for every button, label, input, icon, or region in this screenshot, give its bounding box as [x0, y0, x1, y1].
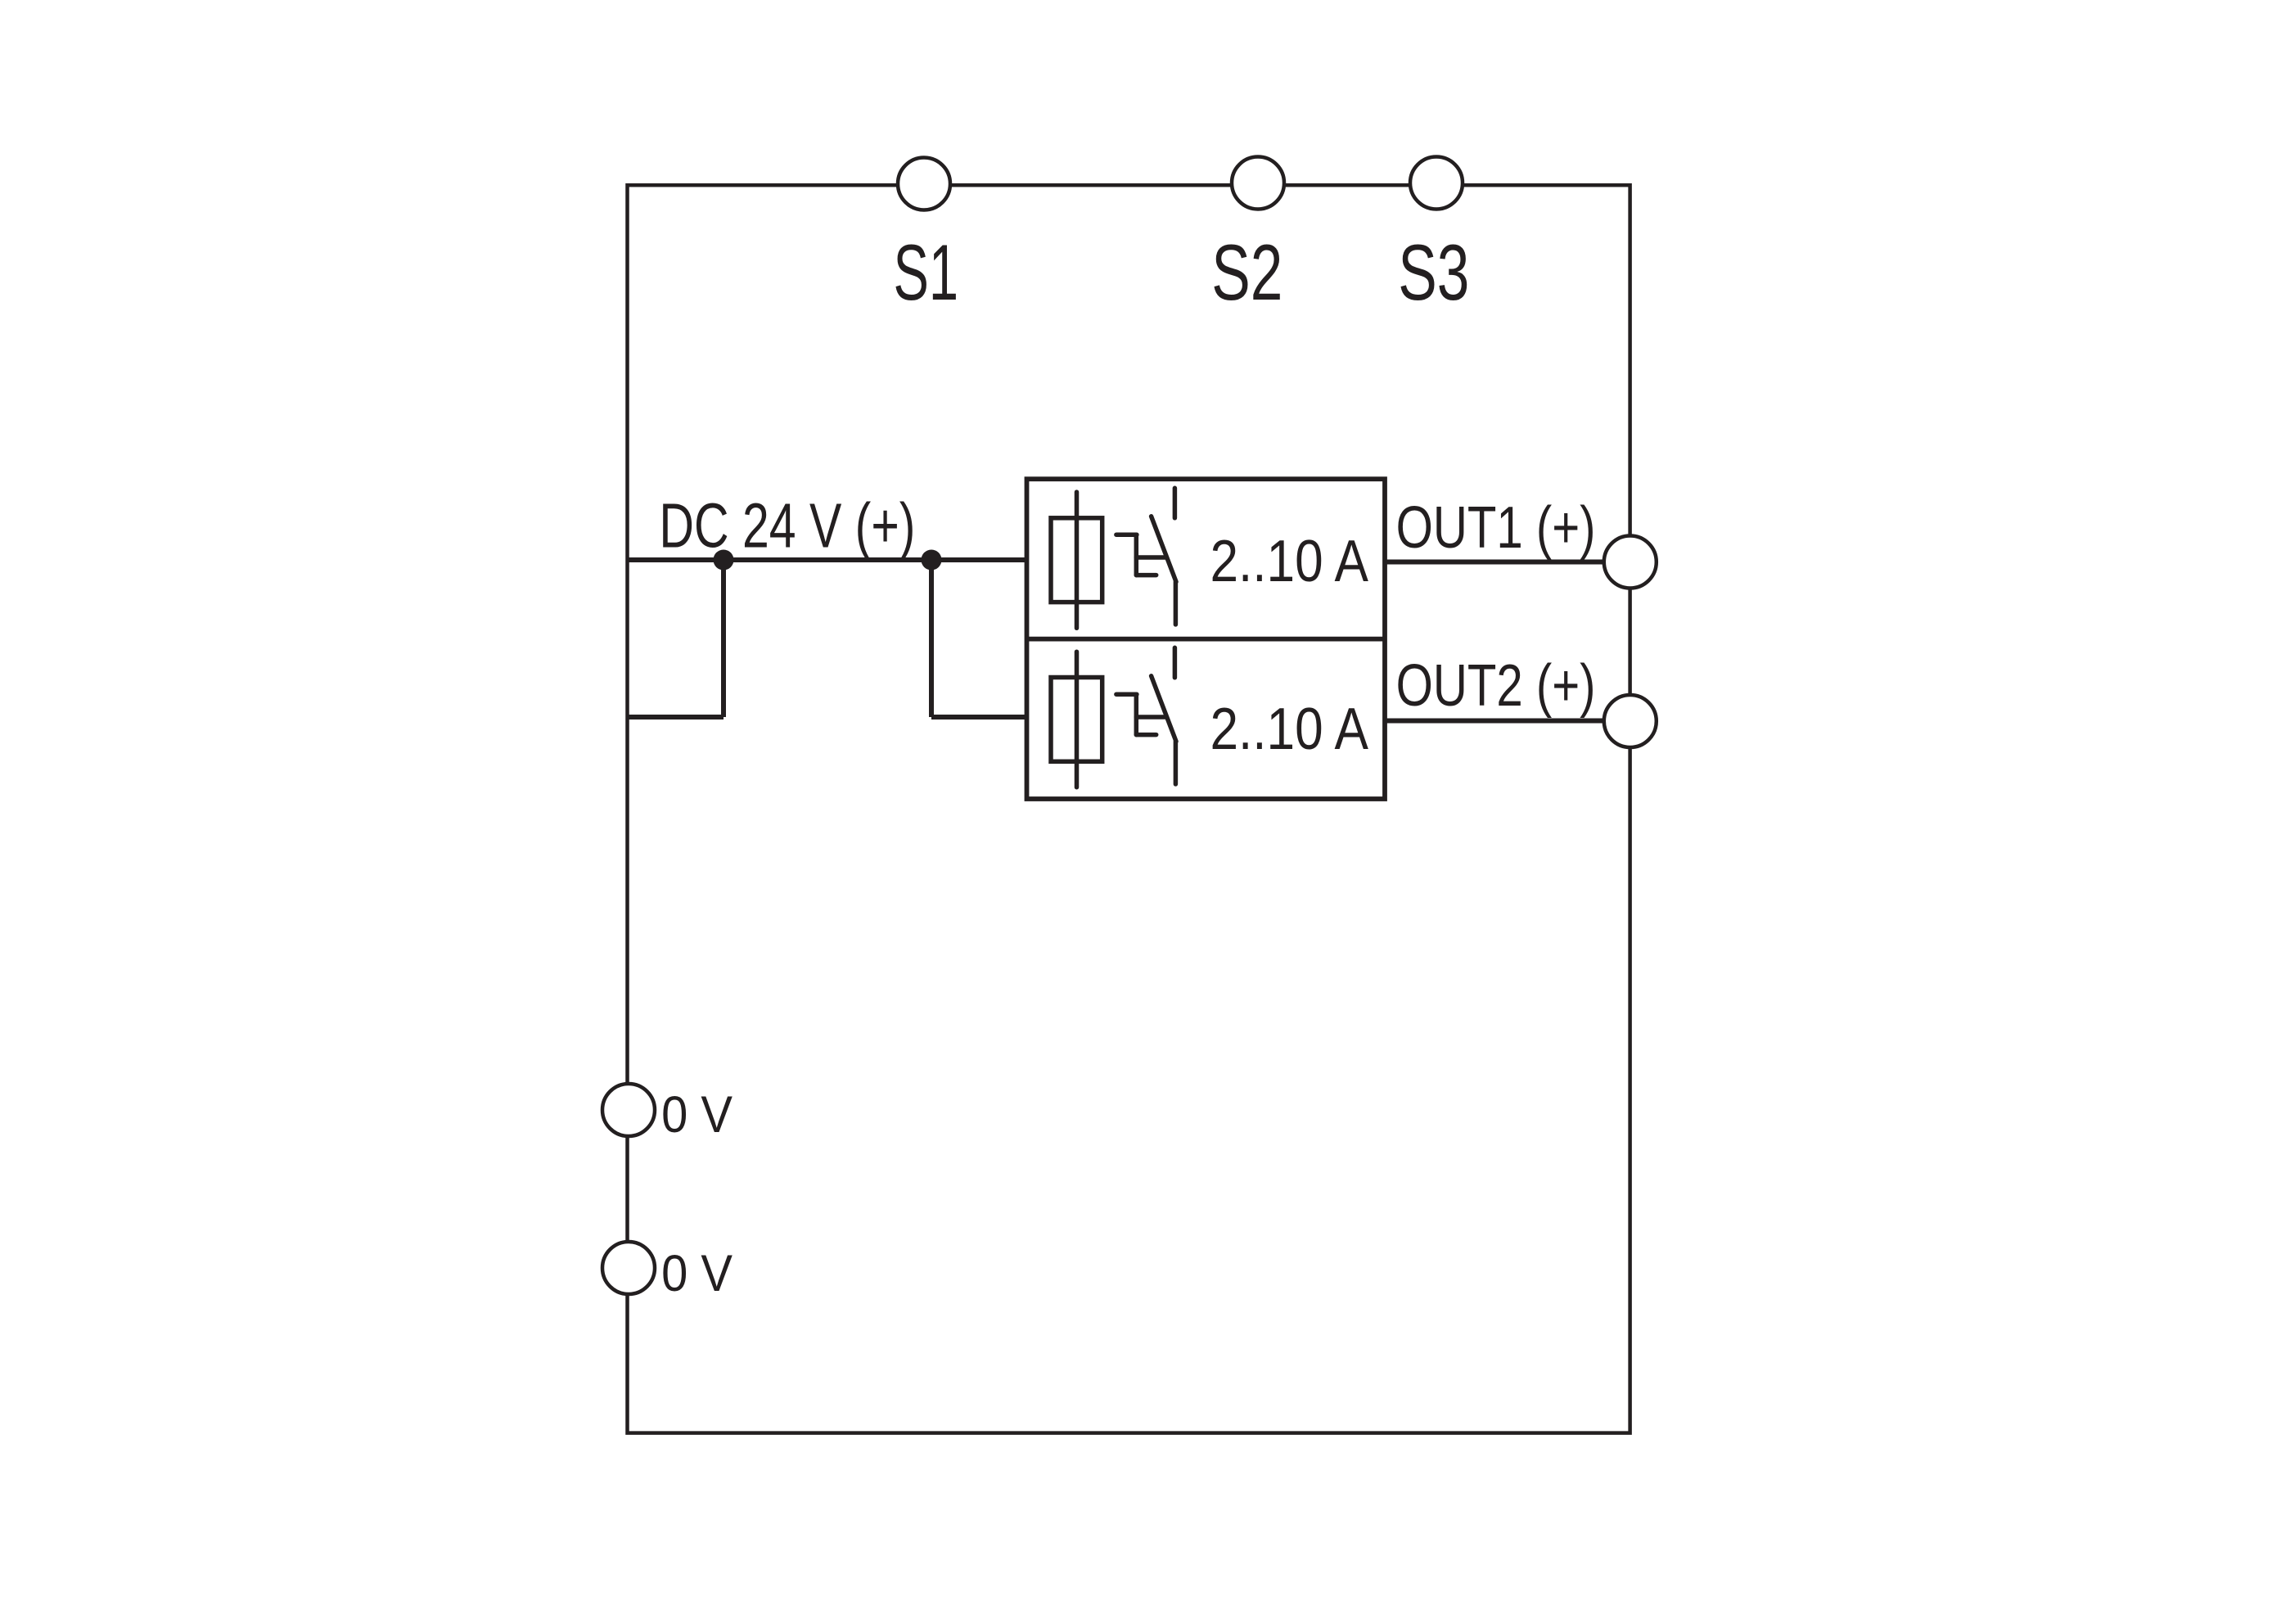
label: 0 V lower [661, 1244, 733, 1302]
terminal S3 [1410, 157, 1463, 210]
svg-text:0 V: 0 V [661, 1085, 733, 1144]
node: junction A on DC 24 V rail [714, 550, 734, 571]
svg-text:OUT2 (+): OUT2 (+) [1396, 652, 1596, 719]
svg-text:S2: S2 [1211, 228, 1282, 316]
wire: branch down from junction B [929, 560, 934, 717]
svg-text:S3: S3 [1398, 228, 1469, 316]
terminal OUT1 [1604, 536, 1657, 589]
label: 2..10 A (channel 1) [1210, 529, 1369, 594]
terminal S2 [1232, 157, 1284, 210]
label: DC 24 V (+) [659, 490, 915, 561]
svg-text:2..10 A: 2..10 A [1210, 529, 1369, 594]
latch mechanism (channel 2) [1116, 694, 1165, 734]
wire: branch A return to left bus [628, 715, 724, 720]
svg-text:0 V: 0 V [661, 1244, 733, 1302]
terminal S1 [898, 158, 950, 210]
breaker switch contact (channel 1) [1152, 488, 1176, 625]
label: 2..10 A (channel 2) [1210, 697, 1369, 762]
ECB module outline box [1027, 479, 1386, 799]
label: 0 V upper [661, 1085, 733, 1144]
svg-text:2..10 A: 2..10 A [1210, 697, 1369, 762]
wire: branch down from junction A [721, 560, 726, 717]
terminal OUT2 [1604, 695, 1657, 747]
breaker switch contact (channel 2) [1152, 647, 1176, 784]
fuse F2 (channel 2) [1051, 652, 1102, 787]
wire: OUT1 output to right bus [1383, 560, 1630, 565]
svg-text:S1: S1 [894, 229, 959, 317]
wire: channel 2 input feed [931, 715, 1029, 720]
wire: module channel divider [1027, 637, 1386, 642]
terminal 0V upper [602, 1084, 655, 1136]
label: S1 [894, 229, 959, 317]
label: OUT1 (+) [1396, 494, 1596, 561]
svg-text:OUT1 (+): OUT1 (+) [1396, 494, 1596, 561]
fuse F1 (channel 1) [1051, 492, 1102, 628]
label: S2 [1211, 228, 1282, 316]
latch mechanism (channel 1) [1116, 535, 1165, 575]
wire: OUT2 output to right bus [1383, 719, 1630, 724]
label: OUT2 (+) [1396, 652, 1596, 719]
wire: DC 24 V (+) rail from left bus to module input 1 [628, 557, 1030, 562]
wire: outer supply bus frame [628, 185, 1630, 1432]
label: S3 [1398, 228, 1469, 316]
svg-text:DC 24 V (+): DC 24 V (+) [659, 490, 915, 561]
terminal 0V lower [602, 1242, 655, 1294]
node: junction B on DC 24 V rail [922, 550, 942, 571]
